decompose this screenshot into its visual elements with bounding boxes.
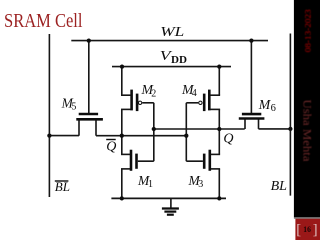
- svg-text:SRAM Cell: SRAM Cell: [4, 10, 83, 32]
- node Q junction: [217, 127, 221, 131]
- wire right inverter vertical upper (VDD to M4 source): [218, 67, 220, 96]
- node BLbar-M5 junction: [47, 133, 51, 137]
- wire WL (word line): [71, 40, 268, 42]
- svg-text:1: 1: [148, 179, 153, 190]
- svg-text:BL: BL: [271, 179, 288, 194]
- wire cross-coupling vertical M4/M3 gates: [185, 103, 187, 161]
- wire left inverter vertical lower (M1 source to ground rail): [121, 169, 123, 199]
- svg-text:16: 16: [303, 224, 311, 234]
- wire M6 gate from WL: [250, 41, 252, 113]
- svg-text:2: 2: [151, 88, 156, 99]
- svg-text:[: [: [296, 222, 301, 238]
- wire upper cross-coupling line (gates of M2/M1 to node Q and M6): [154, 128, 245, 130]
- ground: [162, 198, 179, 214]
- node Qbar junction: [120, 134, 124, 138]
- svg-text:3: 3: [198, 179, 203, 190]
- svg-text:6: 6: [271, 103, 276, 114]
- transistor M2 (left pull-up PMOS): [121, 90, 154, 112]
- svg-text:]: ]: [313, 222, 318, 238]
- transistor M4 (right pull-up PMOS): [186, 90, 220, 112]
- svg-text:Q: Q: [106, 140, 116, 155]
- sidebar page number red block: [295, 219, 320, 240]
- sidebar black bar: [294, 0, 320, 217]
- wire BLbar bit line vertical (left): [48, 34, 50, 197]
- transistor M3 (right pull-down NMOS): [186, 150, 220, 171]
- wire BL bit line vertical (right): [289, 34, 291, 196]
- node VDD right junction: [217, 64, 221, 68]
- wire M6 right terminal to BL: [259, 128, 291, 130]
- wire M5 left terminal to BLbar: [49, 135, 79, 137]
- wire ground rail: [111, 197, 226, 199]
- wire VDD rail: [112, 66, 231, 68]
- node M2/M1 gate junction: [152, 127, 156, 131]
- svg-text:Usha Mehta: Usha Mehta: [300, 100, 314, 163]
- node ground rail right junction: [217, 196, 221, 200]
- wire cross-coupling vertical M2/M1 gates: [153, 103, 155, 161]
- node ground rail left junction: [120, 196, 124, 200]
- wire right inverter vertical middle (M4 drain to M3 drain, node Q): [218, 109, 220, 154]
- node VDD left junction: [120, 64, 124, 68]
- svg-text:4: 4: [192, 88, 197, 99]
- wire M5 gate from WL: [88, 41, 90, 113]
- node WL-M5 junction: [87, 38, 91, 42]
- svg-text:WL: WL: [160, 24, 184, 39]
- transistor M1 (left pull-down NMOS): [121, 150, 154, 171]
- svg-text:DD: DD: [171, 55, 187, 66]
- svg-text:08-13-2023: 08-13-2023: [304, 9, 313, 52]
- sidebar separator line: [294, 217, 320, 218]
- transistor M5 (left access NMOS, horizontal): [76, 114, 103, 136]
- svg-text:Q: Q: [223, 132, 233, 147]
- transistor M6 (right access NMOS, horizontal): [239, 114, 265, 129]
- wire left inverter vertical middle (M2 drain to M1 drain, node Qbar): [121, 109, 123, 154]
- wire lower cross-coupling line (node Qbar to gates of M4/M3): [96, 135, 186, 137]
- node BL-M6 junction: [288, 127, 292, 131]
- svg-text:5: 5: [71, 102, 76, 113]
- wire left inverter vertical upper (VDD to M2 source): [121, 67, 123, 96]
- node M4/M3 gate junction: [184, 134, 188, 138]
- node WL-M6 junction: [249, 38, 253, 42]
- wire right inverter vertical lower (M3 source to ground rail): [218, 169, 220, 199]
